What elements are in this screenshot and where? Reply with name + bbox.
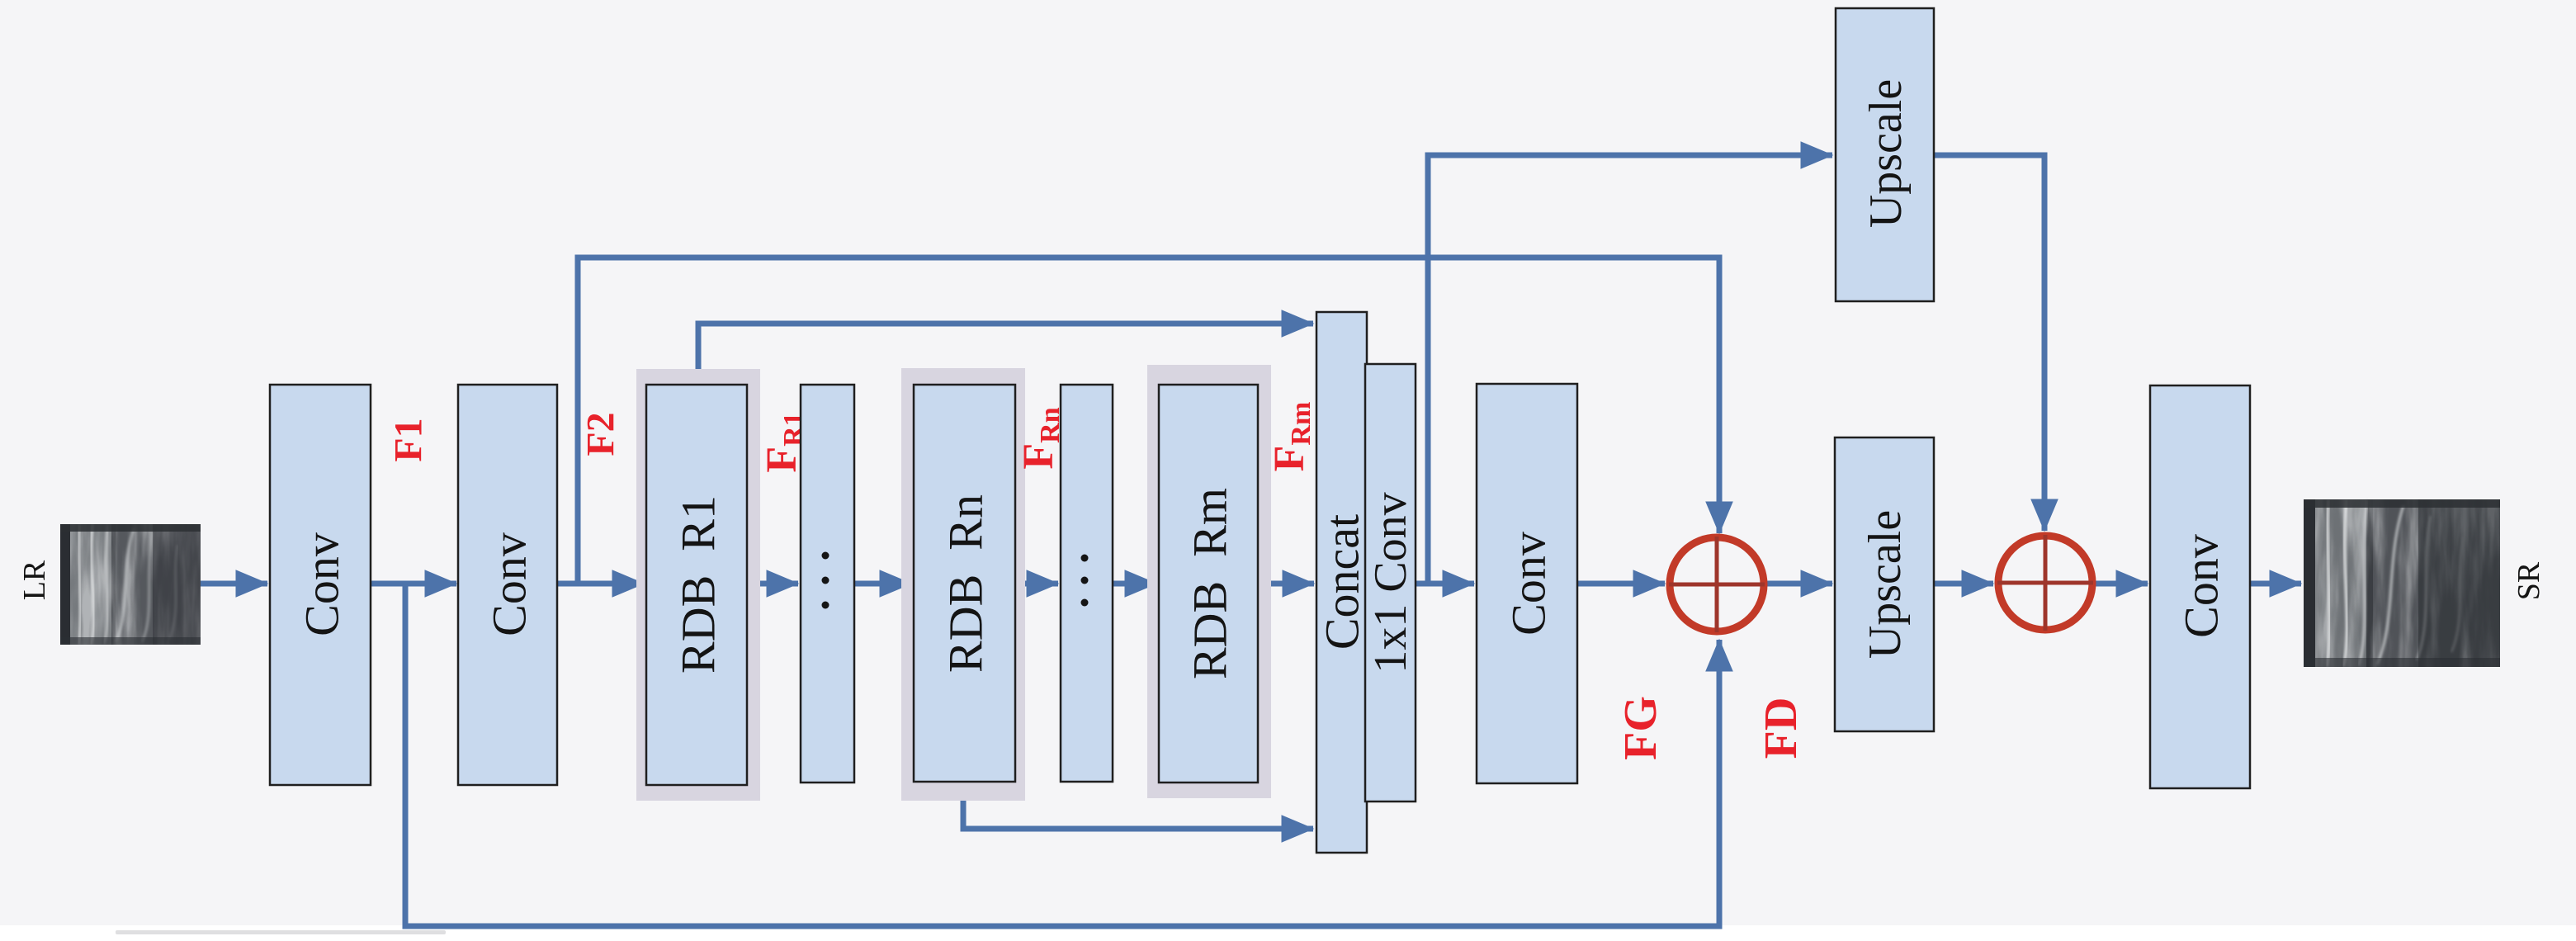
svg-text:Conv: Conv (483, 532, 536, 636)
arrow dots box 2 to RDB Rm (1113, 581, 1156, 587)
svg-text:Upscale: Upscale (1860, 510, 1911, 659)
arrow RDB Rn to dots box 2 (1015, 581, 1058, 587)
svg-text:1x1 Conv: 1x1 Conv (1365, 492, 1416, 673)
arrow Conv1 to Conv2 (371, 581, 456, 587)
svg-text:Concat: Concat (1316, 514, 1369, 650)
dots box D2 (1061, 385, 1113, 782)
upscale block U1 (upper) (1836, 8, 1934, 301)
wire: F2 branch up and over to adder A1 top (578, 258, 1719, 584)
conv block C3 (1477, 384, 1577, 783)
concat block (1316, 312, 1369, 853)
svg-text:LR: LR (17, 560, 52, 600)
svg-text:Upscale: Upscale (1860, 79, 1912, 228)
wire: upper Upscale output to adder A2 top (1934, 155, 2044, 531)
arrow Conv3 to adder A1 (1577, 581, 1665, 587)
svg-text:FG: FG (1615, 696, 1666, 760)
wire: RDB Rn output under the bottom into Concat (963, 796, 1313, 829)
upscale block U2 (lower) (1835, 437, 1934, 731)
arrow RDB Rm to Concat (1258, 581, 1314, 587)
arrow adder A1 to lower Upscale (1767, 581, 1832, 587)
arrow adder A2 to Conv4 (2096, 581, 2148, 587)
svg-text:RDB R1: RDB R1 (672, 495, 726, 674)
wire: RDB R1 output over the top into Concat (698, 324, 1313, 388)
adder A1 (1669, 537, 1765, 632)
RDB block Rm (1147, 365, 1271, 798)
arrow LR to Conv1 (201, 581, 267, 587)
conv block C4 (2150, 385, 2250, 788)
svg-text:F2: F2 (579, 412, 623, 456)
svg-text:RDB Rn: RDB Rn (939, 494, 993, 673)
1x1 conv block (1365, 364, 1416, 802)
arrow 1x1 Conv to Conv3 (1416, 581, 1474, 587)
wire: long bottom skip from F1 junction to adder A1 bottom (405, 584, 1719, 926)
dots box D1 (801, 385, 854, 783)
RDB block Rn (901, 368, 1025, 801)
arrow dots box 1 to RDB Rn (854, 581, 911, 587)
arrow lower Upscale to adder A2 (1934, 581, 1993, 587)
conv block C2 (458, 385, 557, 785)
scan artifact smudge (116, 930, 446, 934)
wire: 1x1 conv output up to upper Upscale (1428, 155, 1832, 584)
arrow Conv4 to SR image (2250, 581, 2301, 587)
arrow RDB R1 to dots box 1 (747, 581, 798, 587)
svg-text:F1: F1 (387, 418, 431, 461)
LR input image (60, 524, 201, 645)
white strip below figure (0, 925, 2576, 937)
RDB block R1 (636, 369, 760, 801)
arrow Conv2 to RDB R1 (557, 581, 644, 587)
SR output image (2304, 499, 2500, 667)
svg-text:Conv: Conv (2175, 534, 2229, 638)
conv block C1 (270, 385, 371, 785)
svg-text:Conv: Conv (1502, 532, 1556, 636)
adder A2 (1997, 535, 2093, 631)
svg-text:SR: SR (2512, 561, 2546, 600)
svg-text:Conv: Conv (295, 532, 349, 636)
svg-text:RDB Rm: RDB Rm (1184, 488, 1237, 679)
svg-text:FD: FD (1756, 697, 1807, 759)
